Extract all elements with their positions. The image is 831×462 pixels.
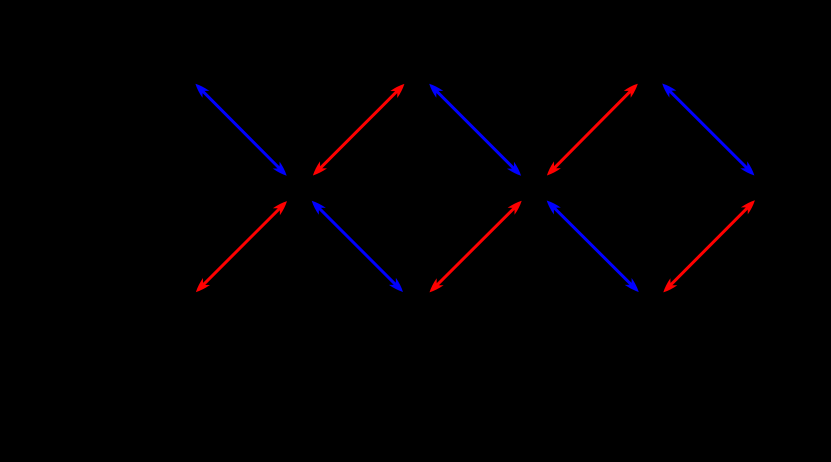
- wire: blue double-headed arrow M1 to B2: [312, 201, 403, 292]
- wire: red double-headed arrow M1 to T2: [313, 84, 405, 176]
- wire: red double-headed arrow B2 to M2: [430, 201, 522, 293]
- wire: red double-headed arrow M2 to T3: [547, 84, 638, 176]
- wire: blue double-headed arrow M2 to B3: [547, 201, 639, 293]
- wire: red double-headed arrow B1 to M1: [196, 201, 287, 292]
- wire: blue double-headed arrow T3 to M3: [662, 84, 754, 176]
- wire: blue double-headed arrow T1 to M1: [195, 84, 286, 176]
- wire: blue double-headed arrow T2 to M2: [429, 84, 521, 176]
- wire: red double-headed arrow M3 to B3: [663, 200, 755, 292]
